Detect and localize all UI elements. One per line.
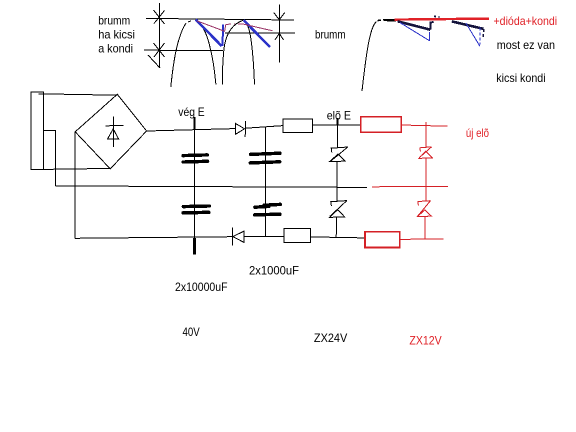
capacitor C1 (2x10000uF upper) top plate <box>183 153 207 157</box>
waveform sketch 1: blue ripple rising jump <box>221 25 224 47</box>
resistor R1 <box>283 119 312 132</box>
waveform sketch 1: left dimension line <box>148 3 165 68</box>
bridge inner diode triangle <box>108 129 119 139</box>
red box B1 (new preamp supply resistor) <box>361 117 402 133</box>
red wire: B2 to the right <box>400 238 444 241</box>
waveform sketch 1: rectified hump 2 falling edge <box>244 20 255 84</box>
waveform sketch 2: thick black level segment <box>384 19 396 22</box>
zener Z3 (red) <box>419 147 432 159</box>
label: brumm ha kicsi a kondi <box>98 14 135 56</box>
transformer T1 <box>31 92 43 169</box>
svg-text:új elõ: új elõ <box>466 126 489 140</box>
wire: Z1 to middle rail <box>336 161 338 186</box>
vég E rail thick bottom stub <box>193 238 196 255</box>
waveform sketch 2: thick dark sawtooth 2 falling <box>452 21 484 29</box>
svg-text:+dióda+kondi: +dióda+kondi <box>494 14 558 28</box>
capacitor C2 (2x1000uF upper) top plate <box>251 153 280 154</box>
diode D1 cathode bar <box>244 121 246 137</box>
bridge inner diode bar <box>106 125 124 127</box>
node: red middle rail <box>372 185 448 188</box>
wire: R1 to red box B1 <box>313 124 361 126</box>
node: vég E rail <box>194 117 196 238</box>
capacitor C4 bottom plate <box>255 212 280 216</box>
bridge inner diode lead <box>112 116 114 147</box>
waveform sketch 1: top reference line <box>146 18 294 20</box>
wire: middle rail down to zener Z2 <box>336 186 338 200</box>
diode D2 triangle <box>233 231 244 242</box>
waveform sketch 2: thick dark sawtooth 1 falling <box>398 21 431 29</box>
svg-text:2x1000uF: 2x1000uF <box>249 264 299 278</box>
svg-text:40V: 40V <box>183 325 200 339</box>
capacitor C3 (2x10000uF lower) top plate <box>183 204 209 208</box>
wire: D1 to resistor R1 <box>246 126 284 129</box>
node: middle 0V rail (black) <box>56 186 368 188</box>
waveform sketch 2: blue big-ripple line 2 <box>466 23 480 46</box>
svg-text:brumm: brumm <box>98 14 130 28</box>
wire: Z2 to negative rail <box>335 217 337 237</box>
red wire: Z3 to red middle rail <box>425 158 427 186</box>
red wire: middle rail down to zener Z4 <box>425 187 427 201</box>
capacitor C1 bottom plate <box>183 160 207 164</box>
vég E rail top stub <box>194 117 196 129</box>
bridge rectifier diamond <box>75 94 146 169</box>
wire: transformer bottom to bridge AC2 <box>44 168 111 169</box>
waveform sketch 2: charging curve <box>362 22 377 91</box>
waveform sketch 2: blue big-ripple line 1 <box>400 23 430 41</box>
capacitor C2 bottom plate <box>250 162 279 163</box>
svg-text:kicsi kondi: kicsi kondi <box>496 71 545 85</box>
svg-text:elõ E: elõ E <box>327 109 351 123</box>
waveform sketch 2: dark dash-dots above red line <box>434 15 440 18</box>
svg-text:brumm: brumm <box>315 28 346 42</box>
svg-text:ha kicsi: ha kicsi <box>98 28 135 42</box>
svg-text:most ez van: most ez van <box>497 38 555 52</box>
wire: bridge plus to diode D1 <box>147 129 236 131</box>
zener Z2 <box>330 201 347 218</box>
waveform sketch 1: magenta small-ripple line <box>197 21 273 32</box>
waveform sketch 1: right lower reference line <box>225 32 295 34</box>
waveform sketch 1: rectified hump 1 rising edge <box>171 24 186 88</box>
wire: transformer top to bridge AC1 <box>39 94 118 95</box>
elő E stub <box>337 118 339 125</box>
waveform sketch 1: rectified hump 1 falling edge <box>197 21 216 85</box>
wire: D2 to resistor R2 <box>244 235 284 237</box>
waveform sketch 2: red +diode+cap output line <box>395 19 490 20</box>
svg-text:ZX12V: ZX12V <box>409 334 441 348</box>
svg-text:2x10000uF: 2x10000uF <box>175 280 228 294</box>
wire: R2 to red box B2 <box>311 237 365 238</box>
wire: bridge minus down to negative rail <box>74 132 76 239</box>
waveform sketch 1: blue ripple sawtooth segment 1 <box>196 20 222 47</box>
svg-text:ZX24V: ZX24V <box>314 331 347 345</box>
capacitor C4 (2x1000uF lower) top plate <box>255 205 269 209</box>
waveform sketch 1: blue ripple sawtooth segment 2 <box>244 21 269 46</box>
red box B2 <box>365 232 400 248</box>
waveform sketch 1: bottom-left reference line <box>144 49 223 51</box>
zener Z1 <box>330 147 348 161</box>
svg-text:vég E: vég E <box>178 105 204 119</box>
svg-text:a kondi: a kondi <box>98 42 133 56</box>
waveform sketch 2: thick dark sawtooth 1 rising jump <box>431 22 434 30</box>
node: second capacitor rail <box>264 127 266 236</box>
red wire: B1 to új elő output <box>401 125 447 126</box>
waveform sketch 1: right dimension line <box>274 5 285 63</box>
waveform sketch 2: blue dashed jump 2 <box>479 28 481 45</box>
capacitor C3 bottom plate <box>183 211 209 215</box>
red wire: Z4 to bottom red wire <box>424 217 426 240</box>
node: negative rail left segment <box>75 237 232 239</box>
waveform sketch 2: dash-dot at curve apex <box>378 19 385 22</box>
wire: transformer center tap <box>44 131 56 186</box>
red wire: down to zener Z3 <box>425 122 427 147</box>
resistor R2 <box>284 229 310 243</box>
waveform sketch 2: dark dashed jump 2 <box>482 29 484 39</box>
zener Z4 (red) <box>418 201 432 217</box>
diode D1 triangle <box>235 123 244 134</box>
waveform sketch 2: blue rising jump 1 <box>429 32 431 41</box>
diode D2 cathode bar <box>231 228 233 246</box>
wire: elő E down to zener Z1 <box>336 125 338 147</box>
waveform sketch 1: rectified hump 2 rising edge <box>222 20 243 84</box>
